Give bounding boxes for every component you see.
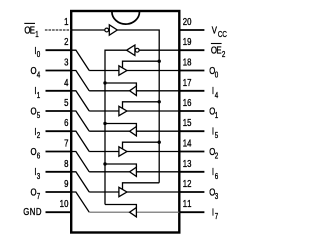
wire pin 4 external lead bbox=[46, 90, 72, 92]
label I1 pin 4 bbox=[34, 85, 40, 100]
wire pin 3 external lead bbox=[46, 70, 72, 72]
label I2 pin 6 bbox=[34, 126, 40, 141]
svg-text:O: O bbox=[30, 65, 36, 76]
svg-text:2: 2 bbox=[222, 51, 225, 60]
label O5 pin 5 bbox=[30, 106, 40, 121]
svg-text:8: 8 bbox=[64, 158, 68, 169]
wire pin 5 jog (stub + diagonal to row 6) bbox=[71, 111, 89, 131]
buffer B1 (I4 to O4, left-pointing) bbox=[130, 86, 137, 96]
svg-text:O: O bbox=[30, 146, 36, 157]
wire buffer B3 input/output (I6 to O6) bbox=[89, 171, 179, 173]
pin number 7 bbox=[64, 138, 68, 149]
svg-text:18: 18 bbox=[183, 57, 192, 68]
wire pin 6 external lead bbox=[46, 130, 72, 132]
svg-text:14: 14 bbox=[183, 138, 192, 149]
pin number 17 bbox=[183, 77, 192, 88]
wire buffer A4 input/output (I3 to O3) bbox=[89, 191, 179, 193]
svg-text:5: 5 bbox=[37, 111, 40, 120]
svg-text:OE: OE bbox=[24, 25, 35, 36]
wire buffer B2 input/output (I5 to O5) bbox=[89, 130, 179, 132]
label I4 pin 17 bbox=[212, 85, 218, 100]
label I0 pin 2 bbox=[34, 45, 40, 60]
wire pin 4 jog (stub + diagonal to row 5) bbox=[71, 91, 89, 111]
svg-text:0: 0 bbox=[37, 51, 40, 60]
IC package body U1 bbox=[71, 11, 179, 233]
svg-text:9: 9 bbox=[64, 178, 68, 189]
wire pin 18 external lead bbox=[179, 70, 204, 72]
label OE2 pin 19 bbox=[211, 44, 225, 60]
pin number 20 bbox=[183, 16, 192, 27]
svg-text:2: 2 bbox=[37, 132, 40, 141]
pin number 12 bbox=[183, 178, 192, 189]
label OE1 pin 1 bbox=[24, 23, 38, 39]
wire pin 2 external lead bbox=[46, 49, 72, 51]
svg-text:OE: OE bbox=[211, 45, 222, 56]
pin number 6 bbox=[64, 117, 68, 128]
svg-text:5: 5 bbox=[64, 97, 68, 108]
wire buffer B3 enable tap to OE2 rail bbox=[105, 164, 136, 167]
svg-text:7: 7 bbox=[64, 138, 68, 149]
svg-text:O: O bbox=[30, 106, 36, 117]
pin number 3 bbox=[64, 57, 68, 68]
svg-text:0: 0 bbox=[215, 71, 218, 80]
svg-text:4: 4 bbox=[37, 71, 40, 80]
svg-text:1: 1 bbox=[35, 30, 38, 39]
wire pin 17 external lead bbox=[179, 90, 204, 92]
svg-text:12: 12 bbox=[183, 178, 192, 189]
svg-text:4: 4 bbox=[215, 91, 218, 100]
junction dot OE1 rail row 7 bbox=[158, 141, 161, 144]
enable buffer U1b (OE2, left-pointing) bbox=[127, 45, 135, 56]
wire buffer B4 enable tap to OE2 rail bbox=[105, 205, 136, 208]
enable buffer U1a (OE1, right-pointing) bbox=[109, 25, 117, 35]
svg-text:7: 7 bbox=[37, 192, 40, 201]
buffer B2 (I5 to O5, left-pointing) bbox=[130, 127, 137, 136]
svg-text:7: 7 bbox=[215, 213, 218, 222]
wire pin 20 external lead bbox=[179, 29, 204, 31]
wire OE1 buffer output to right rail bbox=[117, 30, 159, 183]
wire OE1 input (pin 1 to bubble) bbox=[71, 29, 105, 31]
pin number 14 bbox=[183, 138, 192, 149]
wire OE2 input (pin 19 to bubble) bbox=[139, 49, 179, 51]
pin number 2 bbox=[64, 36, 68, 47]
pin number 19 bbox=[183, 36, 192, 47]
pin number 11 bbox=[183, 198, 192, 209]
svg-text:10: 10 bbox=[60, 198, 69, 209]
label O7 pin 9 bbox=[30, 187, 40, 202]
wire buffer B4 input/output (I7 to O7) bbox=[89, 211, 179, 213]
svg-text:4: 4 bbox=[64, 77, 68, 88]
svg-text:17: 17 bbox=[183, 77, 192, 88]
svg-text:3: 3 bbox=[215, 192, 218, 201]
inverter bubble on U1a input bbox=[105, 28, 109, 32]
buffer A2 (I1 to O1, right-pointing) bbox=[119, 106, 127, 115]
pin number 9 bbox=[64, 178, 68, 189]
svg-text:1: 1 bbox=[215, 111, 218, 120]
pin-1 end notch (top semicircle) bbox=[112, 12, 140, 25]
wire pin 7 external lead bbox=[46, 151, 72, 153]
wire pin 3 jog (stub + diagonal to row 4) bbox=[71, 71, 89, 91]
svg-text:13: 13 bbox=[183, 158, 192, 169]
wire buffer A2 enable tap to OE1 rail bbox=[123, 102, 160, 109]
wire pin 19 external lead bbox=[179, 49, 204, 51]
wire pin 9 external lead bbox=[46, 191, 72, 193]
svg-text:1: 1 bbox=[37, 91, 40, 100]
wire buffer B2 enable tap to OE2 rail bbox=[105, 124, 136, 127]
wire OE2 buffer output to left rail bbox=[105, 50, 127, 204]
wire pin 10 external lead bbox=[46, 211, 72, 213]
label I3 pin 8 bbox=[34, 166, 40, 181]
svg-text:2: 2 bbox=[215, 152, 218, 161]
svg-text:I: I bbox=[212, 166, 214, 177]
wire pin 13 external lead bbox=[179, 171, 204, 173]
wire pin 7 jog (stub + diagonal to row 8) bbox=[71, 152, 89, 172]
svg-text:CC: CC bbox=[218, 30, 227, 39]
svg-text:I: I bbox=[212, 126, 214, 137]
wire pin 8 jog (stub + diagonal to row 9) bbox=[71, 172, 89, 192]
pin number 1 bbox=[64, 16, 68, 27]
wire pin 6 jog (stub + diagonal to row 7) bbox=[71, 131, 89, 151]
buffer A1 (I0 to O0, right-pointing) bbox=[119, 66, 127, 75]
junction dot OE1 rail row 3 bbox=[158, 60, 161, 63]
pin number 8 bbox=[64, 158, 68, 169]
label O6 pin 7 bbox=[30, 146, 40, 161]
pin number 18 bbox=[183, 57, 192, 68]
label GND pin 10 bbox=[23, 206, 42, 217]
svg-text:6: 6 bbox=[215, 172, 218, 181]
svg-text:I: I bbox=[212, 207, 214, 218]
pin number 16 bbox=[183, 97, 192, 108]
pin number 5 bbox=[64, 97, 68, 108]
label VCC pin 20 bbox=[212, 24, 227, 39]
svg-text:6: 6 bbox=[64, 117, 68, 128]
svg-text:3: 3 bbox=[37, 172, 40, 181]
inverter bubble on U1b input bbox=[135, 48, 139, 52]
svg-text:11: 11 bbox=[183, 198, 192, 209]
wire buffer B1 input/output (I4 to O4) bbox=[89, 90, 179, 92]
label I6 pin 13 bbox=[212, 166, 218, 181]
pin number 13 bbox=[183, 158, 192, 169]
label I7 pin 11 bbox=[212, 207, 218, 222]
wire pin 2 jog (stub + diagonal to row 3) bbox=[71, 50, 89, 70]
label O1 pin 16 bbox=[209, 105, 218, 120]
buffer B3 (I6 to O6, left-pointing) bbox=[130, 167, 137, 176]
wire pin 9 jog (stub + diagonal to row 10) bbox=[71, 192, 89, 212]
junction dot OE2 rail row 4 bbox=[103, 81, 106, 84]
svg-text:2: 2 bbox=[64, 36, 68, 47]
svg-text:3: 3 bbox=[64, 57, 68, 68]
buffer A3 (I2 to O2, right-pointing) bbox=[119, 147, 127, 156]
svg-text:1: 1 bbox=[64, 16, 68, 27]
wire pin 16 external lead bbox=[179, 110, 204, 112]
wire pin 5 external lead bbox=[46, 110, 72, 112]
label O3 pin 12 bbox=[209, 186, 218, 201]
buffer B4 (I7 to O7, left-pointing) bbox=[130, 208, 137, 217]
svg-text:20: 20 bbox=[183, 16, 192, 27]
wire pin 8 external lead bbox=[46, 171, 72, 173]
label O2 pin 14 bbox=[209, 146, 218, 161]
svg-text:V: V bbox=[212, 24, 217, 35]
svg-text:15: 15 bbox=[183, 117, 192, 128]
label I5 pin 15 bbox=[212, 126, 218, 141]
junction dot OE2 rail row 6 bbox=[103, 122, 106, 125]
buffer A4 (I3 to O3, right-pointing) bbox=[119, 187, 127, 196]
wire pin 15 external lead bbox=[179, 130, 204, 132]
wire buffer A3 enable tap to OE1 rail bbox=[123, 142, 160, 149]
wire buffer B1 enable tap to OE2 rail bbox=[105, 83, 136, 86]
wire pin 11 external lead bbox=[179, 211, 204, 213]
wire buffer A2 input/output (I1 to O1) bbox=[89, 110, 179, 112]
label O4 pin 3 bbox=[30, 65, 40, 80]
svg-text:GND: GND bbox=[23, 206, 42, 217]
pin number 4 bbox=[64, 77, 68, 88]
svg-text:I: I bbox=[212, 85, 214, 96]
label O0 pin 18 bbox=[209, 65, 218, 80]
pin number 10 bbox=[60, 198, 69, 209]
wire buffer A3 input/output (I2 to O2) bbox=[89, 151, 179, 153]
svg-text:6: 6 bbox=[37, 152, 40, 161]
wire buffer A1 enable tap to OE1 rail bbox=[123, 61, 160, 68]
junction dot OE2 rail row 8 bbox=[103, 162, 106, 165]
wire pin 12 external lead bbox=[179, 191, 204, 193]
svg-text:5: 5 bbox=[215, 132, 218, 141]
pin number 15 bbox=[183, 117, 192, 128]
wire buffer A4 enable tap to OE1 rail bbox=[123, 183, 160, 190]
svg-text:19: 19 bbox=[183, 36, 192, 47]
junction dot OE1 rail row 5 bbox=[158, 100, 161, 103]
svg-text:O: O bbox=[30, 187, 36, 198]
wire pin 14 external lead bbox=[179, 151, 204, 153]
wire buffer A1 input/output (I0 to O0) bbox=[89, 70, 179, 72]
svg-text:16: 16 bbox=[183, 97, 192, 108]
wire pin 1 external lead bbox=[45, 29, 71, 31]
